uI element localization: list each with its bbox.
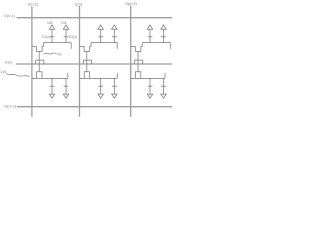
svg-text:S(n+1): S(n+1) bbox=[125, 2, 137, 6]
svg-text:S(n): S(n) bbox=[75, 2, 83, 6]
svg-text:E2(n): E2(n) bbox=[69, 35, 77, 39]
svg-text:G(n+1): G(n+1) bbox=[4, 105, 17, 109]
svg-text:105: 105 bbox=[47, 21, 53, 25]
svg-text:N1: N1 bbox=[57, 53, 62, 57]
svg-text:G(n-1): G(n-1) bbox=[4, 14, 16, 18]
svg-text:G(n): G(n) bbox=[5, 61, 13, 65]
svg-text:S(n-1): S(n-1) bbox=[28, 3, 39, 7]
svg-text:110: 110 bbox=[0, 70, 6, 74]
svg-text:E1(n): E1(n) bbox=[42, 35, 50, 39]
svg-text:104: 104 bbox=[61, 21, 67, 25]
